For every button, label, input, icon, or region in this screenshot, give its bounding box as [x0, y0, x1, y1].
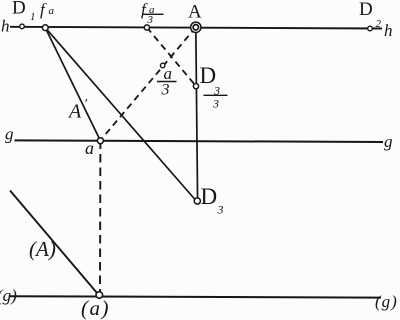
- wire: (g)-line (bottom horizontal axis): [9, 296, 381, 297]
- node D1 (small circle on h-line): [20, 24, 25, 29]
- svg-text:(g): (g): [0, 286, 17, 305]
- svg-text:D: D: [359, 0, 373, 20]
- svg-text:a: a: [49, 5, 55, 17]
- svg-text:2: 2: [376, 18, 382, 30]
- node D3 (circle at end of lines): [194, 198, 200, 204]
- svg-text:(A): (A): [29, 237, 56, 261]
- wire: solid line A' from f_a to a: [45, 28, 100, 141]
- wire: g-line (middle horizontal axis): [15, 140, 384, 142]
- node f_a (circle on h-line): [42, 25, 48, 31]
- wire: dashed line from f_a/3 to D_3/3: [147, 28, 196, 87]
- node a/3 (circle on dashed line): [160, 63, 165, 68]
- svg-text:A: A: [188, 2, 202, 23]
- svg-text:A: A: [67, 101, 82, 123]
- svg-text:a: a: [164, 64, 173, 83]
- svg-text:(a): (a): [81, 296, 110, 320]
- svg-text:h: h: [1, 17, 10, 36]
- svg-text:3: 3: [212, 97, 219, 111]
- node A (double circle on h-line): [191, 22, 201, 32]
- node (a) (circle on (g)-line): [96, 292, 103, 299]
- svg-text:3: 3: [161, 82, 170, 99]
- node f_a/3 (circle on h-line): [144, 25, 149, 30]
- wire: dashed line from A through a/3 to a: [100, 27, 196, 140]
- svg-text:3: 3: [217, 203, 224, 217]
- svg-text:1: 1: [30, 11, 36, 23]
- node D_3/3 (circle on vertical line): [193, 84, 198, 89]
- wire: solid line (A) lower-left to (a): [10, 191, 100, 297]
- svg-text:a: a: [85, 138, 94, 158]
- svg-text:h: h: [384, 21, 393, 40]
- wire: dashed vertical projector from a down to (a): [99, 141, 101, 296]
- wire: h-line (top horizontal trace axis): [10, 27, 382, 29]
- svg-text:D: D: [12, 0, 26, 19]
- svg-text:D: D: [201, 184, 218, 209]
- node D2 (small circle at right end of h-line): [368, 26, 373, 31]
- svg-text:(g): (g): [375, 292, 398, 311]
- wire: solid line from f_a to D3: [45, 28, 197, 202]
- node a (circle on g-line): [97, 138, 103, 144]
- svg-text:3: 3: [147, 14, 154, 26]
- svg-text:g: g: [5, 125, 14, 144]
- svg-text:g: g: [384, 132, 393, 151]
- wire: vertical solid line from A through D_3/3 to D3: [196, 27, 198, 202]
